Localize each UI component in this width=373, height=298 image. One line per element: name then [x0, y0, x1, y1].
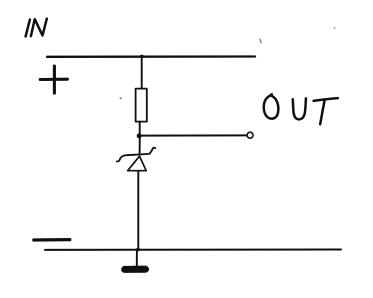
minus sign [34, 238, 70, 242]
zener diode D1 cathode bar [117, 148, 156, 162]
text IN label [26, 19, 47, 37]
wire top input rail [47, 55, 255, 58]
wire top rail to resistor [141, 57, 143, 89]
zener diode D1 anode triangle [128, 156, 147, 171]
terminal OUT open circle [247, 132, 253, 138]
text OUT label [264, 94, 338, 124]
ground rail bottom wire [45, 249, 341, 251]
wire zener anode to ground rail [137, 171, 139, 250]
stray ink speck [334, 27, 336, 29]
wire output node to zener cathode [139, 137, 141, 154]
node ground junction [136, 248, 140, 252]
node top junction [140, 55, 144, 59]
wire output node to OUT terminal [140, 134, 248, 136]
node output junction [137, 133, 142, 138]
stray ink speck [260, 39, 261, 43]
plus sign [40, 66, 67, 93]
wire resistor to output node [139, 122, 141, 135]
wire ground rail to ground symbol [136, 250, 138, 267]
ground symbol [122, 266, 149, 272]
resistor R1 [136, 89, 147, 122]
stray ink speck [120, 97, 122, 99]
